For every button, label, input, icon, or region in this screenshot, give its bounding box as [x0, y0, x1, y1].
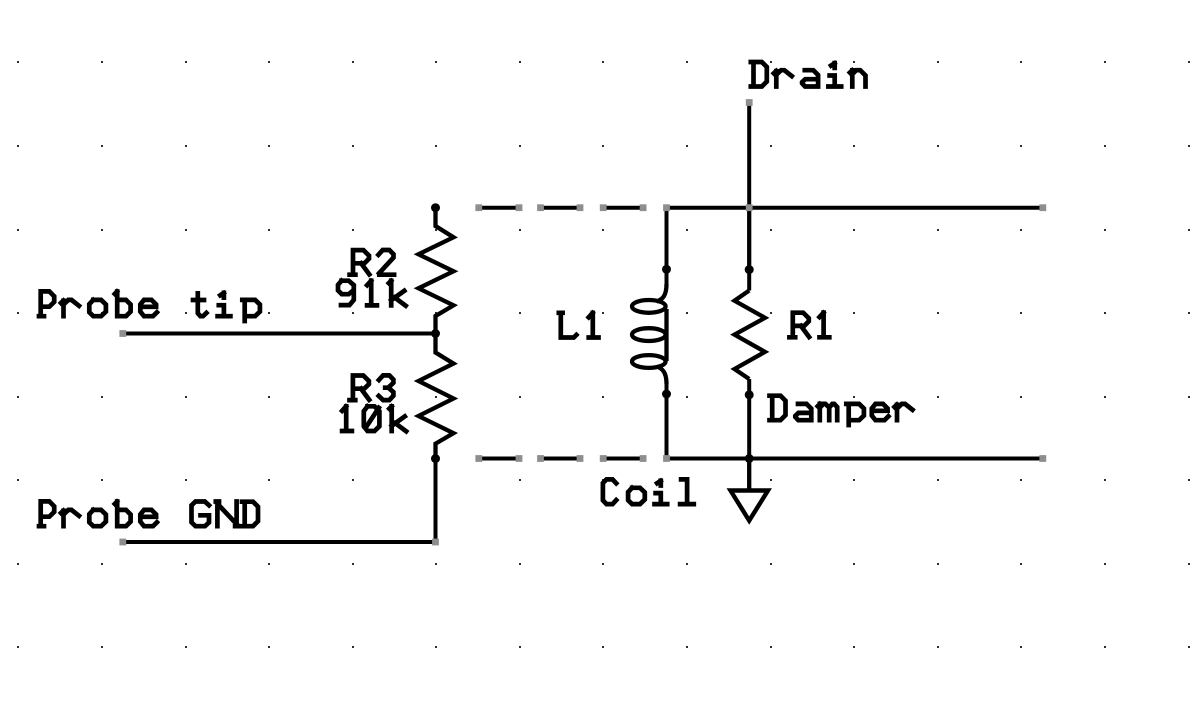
net label "Drain" — [751, 62, 866, 87]
junction: R1 bottom pin — [745, 390, 754, 399]
wire vertex: Drain/top bus crossing — [746, 204, 753, 211]
junction: R3 bottom node — [431, 454, 440, 463]
value 91k — [338, 281, 406, 306]
wire: Probe GND lead — [123, 459, 436, 542]
wire vertex: Probe GND corner — [432, 539, 439, 546]
resistor R1 — [735, 291, 766, 380]
wire vertex: bottom bus right end — [1039, 455, 1046, 462]
wire vertex: Probe GND left end — [119, 539, 126, 546]
resistor R3 — [419, 334, 454, 459]
wire: dashed bus segment (top) — [475, 204, 646, 211]
resistor R2 — [419, 208, 454, 334]
net label "Probe tip" — [39, 291, 260, 321]
junction: Probe tip node — [431, 329, 440, 338]
wire: Probe tip lead — [123, 332, 436, 336]
net label "Coil" — [603, 479, 694, 504]
junction: R1 top pin — [745, 265, 754, 274]
wire: L1 bottom lead — [665, 384, 669, 459]
wire: top bus horizontal — [667, 206, 1043, 210]
junction: L1 top pin — [662, 265, 671, 274]
wire vertex: top bus left corner — [663, 204, 670, 211]
wire: R1 top lead — [747, 208, 751, 291]
net label "Probe GND" — [39, 501, 258, 526]
label L1 — [559, 313, 599, 338]
junction: L1 bottom pin — [662, 390, 671, 399]
wire: R1 bottom lead — [747, 379, 751, 459]
label R3 — [350, 375, 394, 400]
inductor L1 — [632, 284, 667, 384]
label R2 — [350, 250, 395, 275]
wire: L1 top lead — [665, 208, 669, 286]
wire vertex: bottom bus left corner — [663, 455, 670, 462]
junction: Damper/ground node — [745, 454, 754, 463]
net label "Damper" — [770, 396, 913, 425]
wire: dashed bus segment (bottom) — [475, 455, 646, 462]
junction: R2 top pin — [431, 203, 440, 212]
wire: bottom bus horizontal — [667, 457, 1043, 461]
wire vertex: top bus right end — [1039, 204, 1046, 211]
wire: Drain net vertical — [747, 103, 751, 270]
label R1 — [789, 313, 829, 338]
value 10k — [342, 406, 406, 431]
ground — [731, 459, 769, 521]
wire vertex: Drain top end — [746, 99, 753, 106]
wire vertex: Probe tip left end — [119, 330, 126, 337]
